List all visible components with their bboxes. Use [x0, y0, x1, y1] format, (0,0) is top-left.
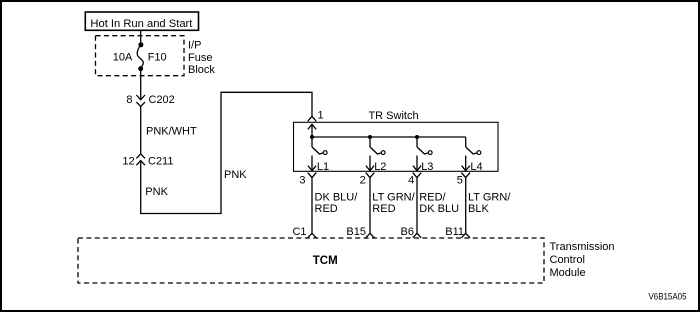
junction dot node L3: [415, 135, 419, 139]
switch L1 output arrow: [308, 156, 316, 171]
svg-text:L4: L4: [470, 161, 482, 173]
fuse F10: [137, 42, 143, 71]
connector fork at TCM pin B15: [366, 233, 375, 238]
svg-text:B11: B11: [445, 226, 464, 238]
connector fork at TCM pin B6: [413, 233, 422, 238]
svg-text:C202: C202: [149, 94, 175, 106]
junction dot node L2: [368, 135, 372, 139]
svg-text:Hot In Run and Start: Hot In Run and Start: [90, 18, 193, 30]
I/P Fuse Block name label: [188, 40, 215, 76]
svg-text:Fuse: Fuse: [188, 52, 212, 64]
svg-text:LT GRN/: LT GRN/: [468, 191, 511, 203]
power source label box: Hot In Run and Start: [85, 12, 198, 30]
svg-text:DK BLU: DK BLU: [419, 203, 459, 215]
svg-text:Control: Control: [550, 254, 585, 266]
svg-text:C1: C1: [292, 226, 306, 238]
internal bus wire: [312, 136, 466, 138]
connector fork at TR switch pin 5: [461, 173, 470, 178]
svg-text:PNK: PNK: [224, 169, 247, 181]
wire LT GRN/BLK from pin 5 to TCM B11: [465, 178, 467, 234]
switch L3: [417, 137, 432, 155]
wire from fuse to C202: [140, 69, 142, 100]
arrow into TR switch from pin 1: [308, 124, 316, 137]
connector fork at TCM pin C1: [308, 233, 317, 238]
svg-text:C211: C211: [148, 156, 173, 168]
svg-text:3: 3: [299, 175, 305, 187]
svg-text:RED/: RED/: [419, 191, 446, 203]
module name label Transmission Control Module: [550, 241, 615, 279]
connector C202 (inline, pin 8): [136, 95, 145, 106]
svg-text:4: 4: [408, 175, 414, 187]
svg-text:LT GRN/: LT GRN/: [372, 191, 415, 203]
switch L2: [370, 137, 385, 155]
connector fork at TR switch pin 2: [366, 173, 375, 178]
TR Switch box: [294, 122, 499, 171]
svg-text:TR Switch: TR Switch: [368, 110, 418, 122]
junction dot node L1: [310, 135, 314, 139]
svg-text:Transmission: Transmission: [550, 241, 615, 253]
connector fork at TR switch pin 3: [308, 173, 317, 178]
svg-text:Block: Block: [188, 64, 215, 76]
wire LT GRN/RED from pin 2 to TCM B15: [369, 178, 371, 234]
svg-text:2: 2: [360, 175, 366, 187]
wire DK BLU/RED from pin 3 to TCM C1: [311, 178, 313, 234]
I/P Fuse Block dashed box: [96, 36, 185, 76]
wire PNK from C211 routed to TR switch pin 1: [141, 92, 312, 213]
svg-text:I/P: I/P: [188, 40, 201, 52]
wire RED/DK BLU from pin 4 to TCM B6: [416, 178, 418, 234]
switch L3 output arrow: [413, 156, 421, 171]
switch L4 output arrow: [462, 156, 470, 171]
svg-text:RED: RED: [372, 203, 395, 215]
svg-text:L1: L1: [317, 161, 329, 173]
svg-text:8: 8: [126, 94, 132, 106]
svg-text:B15: B15: [346, 226, 366, 238]
svg-text:Module: Module: [550, 267, 586, 279]
connector fork at TCM pin B11: [461, 233, 470, 238]
connector fork at TR switch pin 1: [308, 116, 317, 121]
svg-text:DK BLU/: DK BLU/: [315, 191, 359, 203]
switch L4: [466, 137, 481, 155]
svg-text:L3: L3: [421, 161, 433, 173]
svg-text:12: 12: [122, 156, 134, 168]
svg-text:F10: F10: [148, 52, 167, 64]
wire color label RED/DK BLU: [419, 191, 459, 215]
switch L2 output arrow: [366, 156, 374, 171]
svg-text:L2: L2: [374, 161, 386, 173]
svg-text:1: 1: [318, 110, 324, 122]
svg-text:10A: 10A: [113, 52, 133, 64]
svg-text:B6: B6: [401, 226, 414, 238]
wire color label DK BLU/RED: [315, 191, 359, 215]
wire color label LT GRN/BLK: [468, 191, 511, 215]
svg-text:RED: RED: [315, 203, 338, 215]
svg-text:BLK: BLK: [468, 203, 489, 215]
wire color label LT GRN/RED: [372, 191, 415, 215]
connector C211 (inline, pin 12): [136, 154, 145, 165]
svg-text:5: 5: [457, 175, 463, 187]
wire PNK/WHT between C202 and C211: [140, 106, 142, 153]
svg-text:PNK/WHT: PNK/WHT: [146, 126, 197, 138]
TCM dashed box: [78, 238, 544, 283]
svg-text:TCM: TCM: [313, 255, 338, 267]
svg-text:PNK: PNK: [145, 186, 168, 198]
wire from Hot box to fuse: [140, 30, 142, 45]
connector fork at TR switch pin 4: [413, 173, 422, 178]
switch L1: [312, 137, 327, 155]
svg-text:V6B15A05: V6B15A05: [649, 292, 687, 303]
